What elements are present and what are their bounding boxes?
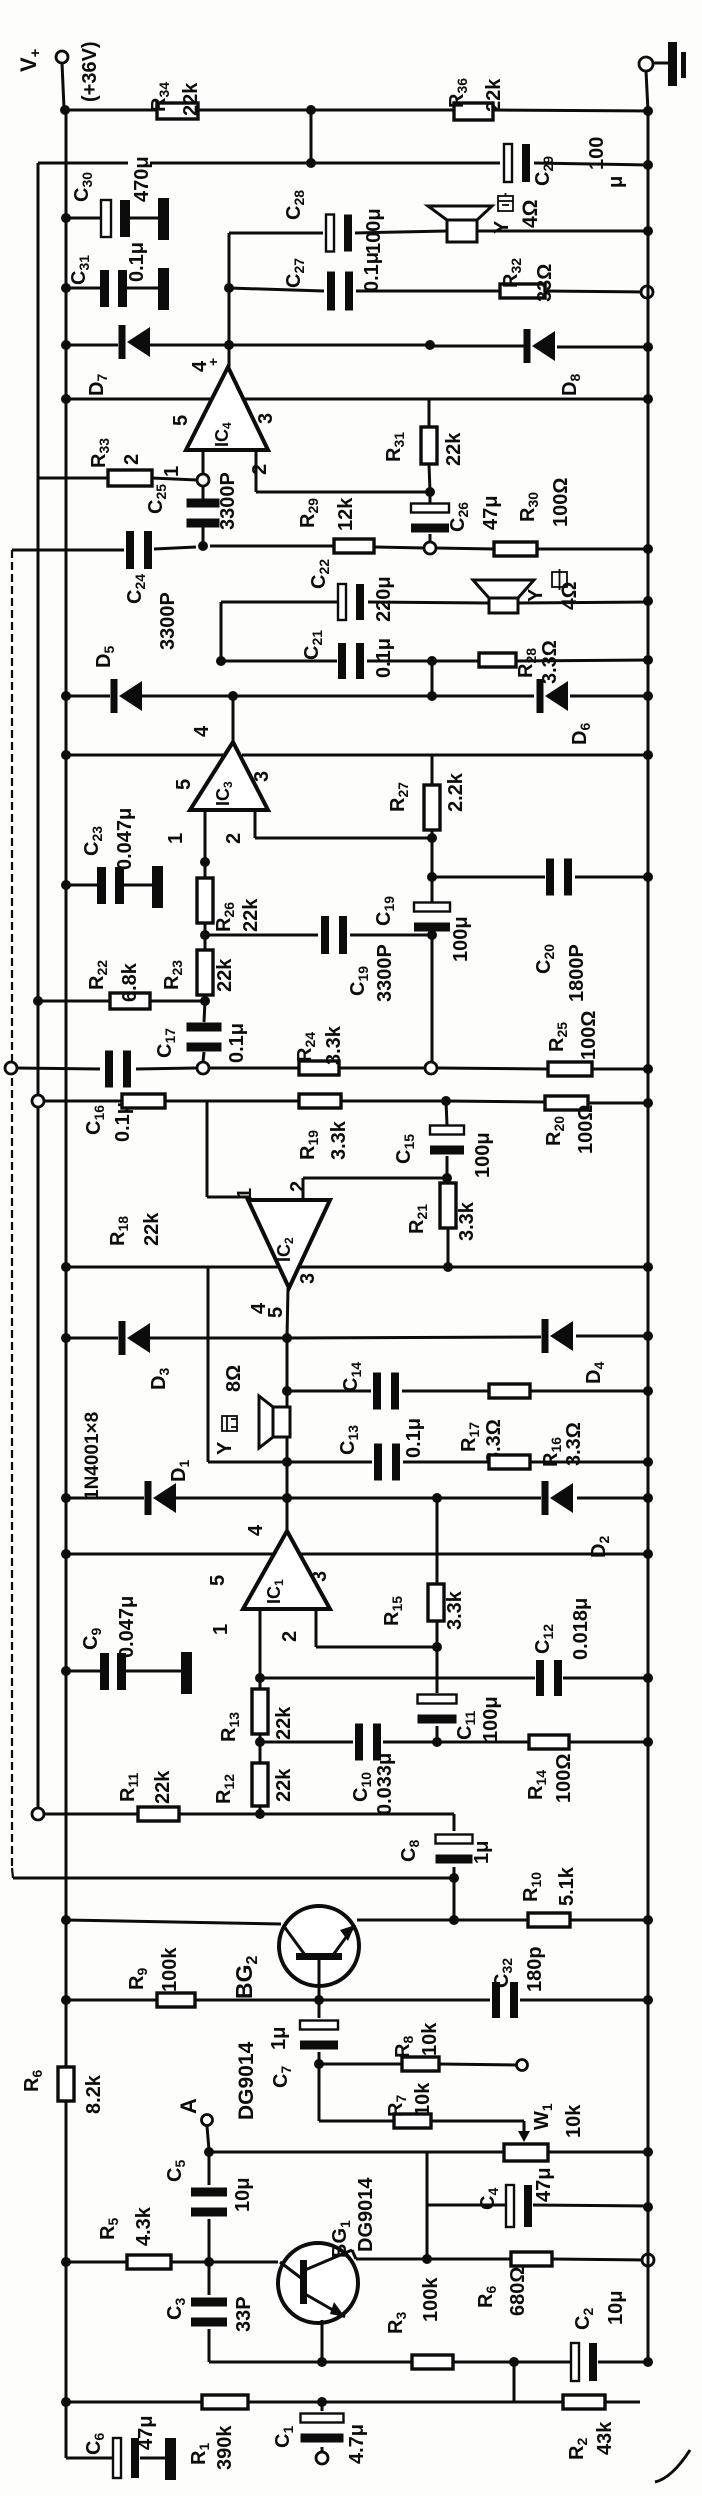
ground bar C6: [165, 2438, 176, 2480]
label C27 value 0.1u: [361, 252, 383, 292]
wire treble speaker line: [229, 231, 648, 233]
wire bus line to C8: [13, 1877, 454, 1880]
label R32: [500, 258, 524, 288]
terminal input (C1): [316, 2452, 328, 2464]
label C4: [477, 2188, 501, 2210]
terminal A: [202, 2115, 213, 2126]
junction rail bottom: [643, 2357, 653, 2367]
junction collector line on rail: [642, 2254, 654, 2266]
wire C8 to emitter: [453, 1878, 456, 1920]
label C32: [491, 1958, 515, 1988]
svg-text:2: 2: [279, 1631, 301, 1642]
label R26 value 22k: [240, 898, 262, 932]
svg-text:33P: 33P: [233, 2296, 255, 2332]
op-amp IC1: [207, 1524, 331, 1642]
svg-text:10k: 10k: [419, 2022, 441, 2056]
svg-text:1N4001×8: 1N4001×8: [82, 1412, 103, 1500]
svg-text:4Ω: 4Ω: [519, 199, 542, 228]
label R6 value 8.2k: [83, 2074, 105, 2114]
label BG1: [329, 2220, 353, 2258]
svg-text:5.1k: 5.1k: [556, 1866, 578, 1906]
svg-text:22k: 22k: [180, 82, 202, 116]
svg-text:2: 2: [223, 833, 245, 844]
label R21: [406, 1204, 430, 1234]
junction C20 tap: [427, 872, 437, 882]
junction C23 on V+ rail: [61, 880, 71, 890]
label Y mid 4ohm: [558, 581, 581, 610]
wire R5 line: [66, 2261, 278, 2264]
label R20: [543, 1116, 567, 1146]
junctions IC1 power: [61, 1549, 653, 1559]
wire C26: [429, 492, 432, 543]
wire R8 line: [319, 2064, 516, 2065]
svg-text:390k: 390k: [214, 2425, 236, 2470]
svg-text:2: 2: [249, 464, 271, 475]
wire bias line: [38, 163, 648, 165]
label C15: [393, 1134, 417, 1164]
label R27: [387, 782, 411, 812]
wire to C30: [66, 217, 158, 220]
label R22: [86, 960, 110, 990]
label R29 value 12k: [335, 497, 357, 531]
label R11: [117, 1773, 141, 1802]
junction R20 rail: [643, 1098, 653, 1108]
label R32 value 33ohm: [534, 264, 556, 302]
junction C10-C11-R14: [432, 1737, 442, 1747]
wire left drop to zobel: [207, 1267, 210, 1462]
junction R26-R23-C18: [200, 930, 210, 940]
wire bridge vertical: [286, 1338, 289, 1497]
svg-text:DG9014: DG9014: [235, 2041, 258, 2120]
resistor R24 3.3k: [299, 1061, 339, 1075]
svg-text:0.033μ: 0.033μ: [374, 1753, 396, 1815]
diode D1: [145, 1481, 177, 1515]
label C16 value 0.1u: [112, 1102, 134, 1142]
label R28: [515, 648, 539, 678]
node signal bus to C16: [5, 1062, 17, 1074]
wire IC3 clamp line: [66, 695, 648, 698]
label C12 value 0.018u: [570, 1598, 592, 1660]
junction R1 on V+ rail: [61, 2397, 71, 2407]
wire divider mid down: [310, 110, 313, 163]
wire W1 left to A node: [209, 2151, 504, 2154]
wire IC3 power line: [66, 754, 648, 757]
junctions IC3 power line: [61, 750, 653, 760]
capacitor C9 0.047u: [100, 1653, 126, 1690]
svg-text:5: 5: [265, 1307, 287, 1318]
wire R31 connections: [429, 399, 430, 492]
label C18 value 3300P: [374, 944, 396, 1002]
junctions BG2 emitter line: [61, 1915, 653, 1925]
junction R30 to rail: [643, 544, 653, 554]
svg-text:47μ: 47μ: [533, 2168, 555, 2202]
label Y low: [214, 1441, 236, 1455]
wire C4 to collector line: [426, 2205, 429, 2259]
label D8: [559, 374, 583, 396]
junction C4 rail: [643, 2202, 653, 2212]
label R27 value 2.2k: [445, 772, 467, 812]
wire IC1 clamp line: [66, 1497, 648, 1500]
svg-text:12k: 12k: [335, 497, 357, 531]
label R25: [546, 1022, 570, 1052]
label R4 value 680ohm: [507, 2267, 529, 2316]
junction mid speaker rail: [643, 596, 653, 606]
resistor R4 680ohm (scan label R6): [511, 2252, 552, 2266]
svg-text:0.047μ: 0.047μ: [114, 808, 136, 870]
svg-text:680Ω: 680Ω: [507, 2267, 529, 2316]
svg-text:1: 1: [165, 833, 187, 844]
label R5: [97, 2218, 121, 2240]
resistor R34 22k: [157, 103, 198, 119]
wire C1 conn: [321, 2402, 324, 2452]
ground symbol bar 2: [681, 52, 686, 78]
label C28 value 100u: [363, 208, 385, 254]
resistor R16 3.3ohm: [489, 1455, 530, 1469]
wire IC4 filter line: [12, 546, 648, 550]
capacitor C27 0.1u: [327, 272, 353, 311]
resistor R17 3.3ohm: [489, 1384, 530, 1398]
label R7 value 10k: [412, 2082, 434, 2116]
junction C13 rail: [643, 1457, 653, 1467]
label C6 value 47u: [135, 2416, 157, 2450]
wire C13 line: [208, 1461, 648, 1464]
capacitor C11 100u: [418, 1695, 457, 1724]
wire IC3 out to zobel: [431, 661, 434, 696]
ground bar C31: [158, 268, 169, 310]
wire V+ rail: [65, 110, 68, 2458]
junction IC1 pin2 node: [432, 1642, 442, 1652]
label W1 value 10k: [563, 2104, 585, 2138]
junctions IC3 clamp: [61, 691, 653, 701]
resistor R22 6.8k: [110, 993, 150, 1009]
label C29 value 100: [586, 137, 608, 170]
label C1: [272, 2426, 296, 2448]
svg-text:3.3Ω: 3.3Ω: [539, 640, 561, 684]
label Y high: [491, 220, 513, 234]
wire IC4 output up: [228, 233, 231, 367]
junction C19-C18: [427, 930, 437, 940]
label C7 value 1u: [268, 2027, 290, 2050]
svg-text:1μ: 1μ: [471, 1841, 493, 1864]
svg-text:Y: Y: [525, 588, 547, 602]
resistor R26 22k: [197, 878, 213, 923]
capacitor C4 47u: [506, 2185, 532, 2227]
wire IC1 pin2: [316, 1609, 437, 1647]
label R17: [458, 1422, 482, 1452]
svg-text:100Ω: 100Ω: [550, 478, 572, 527]
wire IC4 power line: [66, 398, 648, 401]
label V+ terminal: [16, 48, 44, 72]
label C27: [283, 258, 307, 288]
label R2 value 43k: [594, 2421, 616, 2455]
capacitor C30 470u: [101, 200, 130, 237]
node bias rail bottom / R11: [32, 1808, 44, 1820]
capacitor C12 0.018u: [536, 1660, 562, 1696]
label R34 value 22k: [180, 82, 202, 116]
resistor R10 5.1k: [528, 1913, 570, 1927]
resistor R11 22k: [138, 1807, 179, 1821]
wire C17 conn: [203, 1001, 205, 1062]
resistor R23 22k: [197, 950, 213, 995]
label C31: [68, 255, 92, 285]
wire to C9: [66, 1670, 181, 1673]
svg-text:2: 2: [121, 454, 143, 465]
label R13: [218, 1712, 242, 1742]
node IC3 input: [197, 1062, 209, 1074]
wire V+ terminal to rail: [62, 63, 64, 108]
wire ground rail: [647, 111, 650, 2365]
capacitor C32 180p: [492, 1982, 518, 2018]
capacitor C3 33P: [191, 2298, 227, 2327]
label C23: [81, 826, 105, 856]
wire mid out connector: [220, 602, 223, 661]
junction IC3 pin2 node: [427, 833, 437, 843]
wire mid speaker line: [221, 602, 648, 603]
svg-text:μ: μ: [605, 176, 627, 188]
junction pin1-R13-C12: [255, 1673, 265, 1683]
wire ground terminal: [646, 63, 670, 111]
label Y low 8ohm: [223, 1365, 245, 1392]
speaker Y-high 4ohm (horn up): [428, 206, 492, 242]
wire IC2 pin2 line: [303, 1178, 447, 1200]
svg-text:100Ω: 100Ω: [578, 1011, 600, 1060]
junction pin2-C15-R21: [442, 1173, 452, 1183]
label C21: [301, 630, 325, 660]
capacitor C22 220u: [338, 584, 364, 620]
wire W1 right to rail: [548, 2151, 648, 2154]
junction speaker high to rail: [643, 226, 653, 236]
svg-text:1: 1: [210, 1624, 232, 1635]
resistor R25 100ohm: [548, 1062, 592, 1076]
capacitor C28 100u: [326, 215, 352, 252]
label R24 value 3.3k: [323, 1025, 345, 1065]
label C10: [350, 1772, 374, 1802]
label Y mid: [525, 588, 547, 602]
label C22: [308, 559, 332, 589]
wire C16 line: [16, 1068, 196, 1069]
svg-text:100: 100: [586, 137, 608, 170]
svg-text:220μ: 220μ: [373, 576, 395, 622]
label C25: [145, 484, 169, 514]
diode D4: [542, 1319, 574, 1353]
svg-text:0.1μ: 0.1μ: [403, 1418, 425, 1458]
label C13: [337, 1425, 361, 1455]
glyph low (CJK) for Y-low: [222, 1416, 237, 1431]
label R9 value 100k: [159, 1947, 181, 1992]
resistor R21 3.3k: [440, 1183, 456, 1228]
label C7: [270, 2066, 294, 2088]
junction R22 on bias rail: [33, 996, 43, 1006]
label R34: [148, 82, 172, 112]
svg-text:47μ: 47μ: [135, 2416, 157, 2450]
label C26 value 47u: [480, 496, 502, 530]
wire C15 conn: [446, 1101, 447, 1178]
terminal ground top right: [639, 57, 653, 71]
capacitor C29 100u: [504, 144, 530, 182]
label (+36V): [79, 41, 101, 102]
resistor R27 2.2k: [424, 785, 440, 830]
label C13-C14 value 0.1u: [403, 1418, 425, 1458]
wire C4 line: [427, 2205, 648, 2206]
label R12: [213, 1774, 237, 1804]
label R14 value 100ohm: [553, 1754, 575, 1803]
label BG2 type DG9014: [235, 2041, 258, 2120]
label C2: [572, 2308, 596, 2330]
label R28 value 3.3ohm: [539, 640, 561, 684]
junction emitter node: [317, 2357, 327, 2367]
label C30 value 470u: [131, 156, 153, 202]
svg-text:4.7μ: 4.7μ: [346, 2424, 368, 2464]
svg-text:470μ: 470μ: [131, 156, 153, 202]
wire C12 line: [260, 1677, 648, 1680]
label C31 value 0.1u: [126, 242, 148, 282]
op-amp IC2 (inverted): [234, 1181, 330, 1318]
node C26 bottom on R29 line: [424, 542, 436, 554]
junction C1 node: [317, 2397, 327, 2407]
svg-text:0.1μ: 0.1μ: [226, 1023, 248, 1063]
junctions clamp line IC4: [61, 340, 653, 352]
junction C25-C24-R29: [198, 541, 208, 551]
resistor R8 10k: [402, 2057, 439, 2071]
svg-text:47μ: 47μ: [480, 496, 502, 530]
svg-text:10μ: 10μ: [605, 2291, 627, 2325]
svg-text:4.3k: 4.3k: [133, 2206, 155, 2246]
wire C8 conn: [453, 1814, 456, 1878]
wire signal bus vertical: [11, 550, 13, 1868]
label C29 value u: [605, 176, 627, 188]
svg-text:6.8k: 6.8k: [119, 962, 141, 1002]
wire C14 line: [287, 1390, 648, 1393]
wire bias rail vertical: [37, 163, 40, 1814]
label R31 value 22k: [443, 432, 465, 466]
label R30 value 100ohm: [550, 478, 572, 527]
label C19a: [347, 966, 371, 996]
junction A node / C5: [204, 2147, 214, 2157]
label C8 value 1u: [471, 1841, 493, 1864]
potentiometer W1 10k body: [504, 2144, 548, 2161]
wire R13 conn: [259, 1678, 262, 1742]
wire IC2 output down: [287, 1288, 288, 1338]
svg-text:100μ: 100μ: [480, 1696, 502, 1742]
svg-text:0.047μ: 0.047μ: [116, 1596, 138, 1658]
label R13 value 22k: [273, 1706, 295, 1740]
svg-text:3.3k: 3.3k: [444, 1590, 466, 1630]
node R24-R25: [425, 1062, 437, 1074]
label R4 (R6) 680: [475, 2286, 499, 2308]
resistor R19 3.3k: [299, 1094, 341, 1108]
label R23: [161, 960, 185, 990]
label C24 value 3300P: [157, 592, 179, 650]
junction C31 on V+ rail: [61, 283, 71, 293]
svg-text:22k: 22k: [152, 1770, 174, 1804]
label Y high 4ohm: [519, 199, 542, 228]
svg-text:1μ: 1μ: [268, 2027, 290, 2050]
capacitor C1 4.7u: [301, 2414, 344, 2443]
wire R21 conn: [447, 1178, 450, 1267]
wire BG2 collector line: [66, 1920, 281, 1924]
transistor BG2 (DG9014): [279, 1906, 359, 2000]
label C20: [533, 944, 557, 974]
wire IC4 pin1: [202, 450, 205, 474]
wire R26 conn: [204, 862, 207, 935]
junction R14 rail: [643, 1737, 653, 1747]
wire IC1 power line: [66, 1553, 648, 1556]
label C16: [83, 1105, 107, 1135]
junction C15 top: [441, 1096, 451, 1106]
label C11 value 100u: [480, 1696, 502, 1742]
resistor R13 22k: [252, 1689, 268, 1734]
wire link to bottom line: [513, 2362, 516, 2402]
junctions IC4 power line: [61, 394, 653, 404]
wire emitter line: [209, 2361, 645, 2364]
capacitor C13 0.1u: [374, 1444, 400, 1481]
svg-text:22k: 22k: [483, 78, 505, 112]
label R6: [21, 2070, 45, 2092]
wire IC2 clamp line: [66, 1336, 648, 1338]
label R7: [385, 2095, 409, 2117]
label C29: [532, 156, 556, 186]
svg-text:3.3k: 3.3k: [328, 1120, 350, 1160]
label R33: [88, 438, 112, 468]
label R23 value 22k: [214, 958, 236, 992]
junction R25 rail: [643, 1064, 653, 1074]
label R18: [107, 1216, 131, 1246]
label R14: [525, 1770, 549, 1800]
diode D8: [524, 329, 556, 363]
capacitor C25 3300P: [187, 499, 220, 528]
svg-text:5: 5: [207, 1575, 229, 1586]
svg-text:10k: 10k: [563, 2104, 585, 2138]
junction C32 rail: [643, 1995, 653, 2005]
label D3: [148, 1368, 172, 1390]
label R15 value 3.3k: [444, 1590, 466, 1630]
wire IC1 output up: [286, 1497, 289, 1531]
diode D7: [119, 325, 151, 359]
label C3 value 33P: [233, 2296, 255, 2332]
glyph mid (CJK) for Y-mid: [552, 569, 567, 590]
resistor R9 100k: [157, 1993, 195, 2007]
wire C10 line: [260, 1741, 648, 1744]
label C24: [124, 574, 148, 604]
node R18 on bias rail: [32, 1095, 44, 1107]
wire C3 conn: [208, 2262, 211, 2362]
label R11 value 22k: [152, 1770, 174, 1804]
svg-text:Y: Y: [214, 1441, 236, 1455]
wire R7 line: [319, 2064, 524, 2134]
speaker Y-low 8ohm (woofer): [259, 1396, 290, 1448]
svg-text:3300P: 3300P: [217, 472, 239, 530]
resistor R28 3.3ohm: [479, 653, 516, 667]
label R2: [566, 2438, 590, 2460]
svg-text:22k: 22k: [273, 1768, 295, 1802]
svg-text:3: 3: [297, 1273, 319, 1284]
svg-text:3.3k: 3.3k: [323, 1025, 345, 1065]
resistor R33 2ohm: [108, 470, 152, 486]
junction R13-R12-C10: [255, 1737, 265, 1747]
resistor R36 22k: [454, 103, 493, 120]
speaker Y-mid 4ohm (horn up): [473, 580, 534, 613]
svg-text:100Ω: 100Ω: [575, 1105, 597, 1154]
resistor R31 22k: [421, 427, 437, 464]
resistor R7 10k: [394, 2114, 431, 2128]
resistor R1 390k: [202, 2395, 248, 2409]
terminal V+ (+36V): [56, 51, 68, 63]
label C17: [154, 1028, 178, 1058]
svg-text:10k: 10k: [412, 2082, 434, 2116]
svg-text:2.2k: 2.2k: [445, 772, 467, 812]
wire BG1 collector line: [352, 2250, 643, 2260]
junction C7-R7-R8: [314, 2059, 324, 2069]
